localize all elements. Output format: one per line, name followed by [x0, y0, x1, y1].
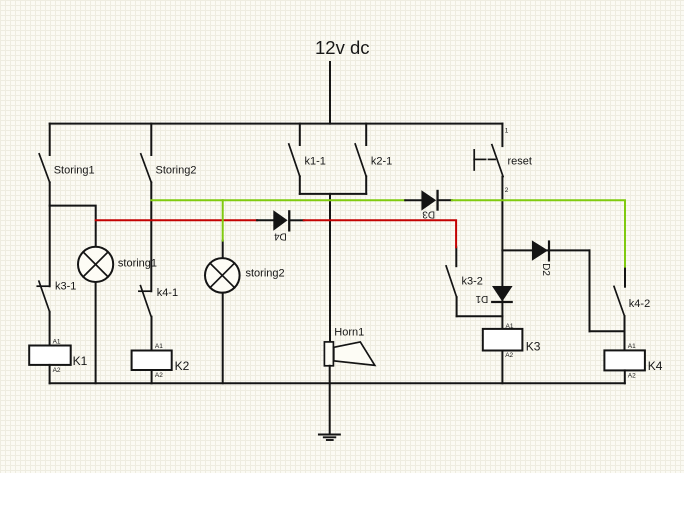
svg-text:D1: D1 — [475, 293, 488, 304]
svg-text:Storing1: Storing1 — [54, 165, 95, 177]
svg-text:A2: A2 — [155, 372, 163, 379]
lamp storing2 — [205, 258, 285, 293]
switch Storing1 — [39, 124, 94, 183]
svg-text:k1-1: k1-1 — [305, 155, 326, 167]
svg-text:A1: A1 — [628, 343, 636, 350]
diode D3 — [405, 190, 452, 220]
wire k4-2 lower to K4 — [624, 316, 626, 350]
relay coil K4 — [604, 343, 662, 380]
relay coil K3 — [483, 323, 541, 359]
switch k3-1 (NC contact) — [37, 280, 76, 311]
buzzer Horn1 — [324, 327, 374, 366]
svg-text:reset: reset — [508, 156, 532, 168]
svg-text:K3: K3 — [526, 340, 541, 354]
wire green net drop to storing2 — [222, 200, 224, 240]
svg-text:2: 2 — [505, 187, 509, 194]
wire D2 branch horizontal — [502, 249, 589, 251]
wire D2 output to k4-2 — [590, 330, 625, 332]
svg-text:k3-1: k3-1 — [55, 280, 76, 292]
wire lamp storing1 to bottom bus — [95, 282, 97, 383]
svg-text:D4: D4 — [274, 230, 287, 241]
wire Storing1 lower vertical — [49, 182, 51, 286]
relay coil K1 — [29, 338, 87, 374]
relay coil K2 — [132, 343, 190, 379]
svg-text:D3: D3 — [422, 209, 435, 220]
wire K3 A2 pin — [501, 351, 503, 384]
svg-text:A2: A2 — [53, 367, 61, 374]
svg-text:A1: A1 — [155, 343, 163, 350]
node 12V supply label — [315, 37, 370, 58]
switch k4-1 (NC contact) — [139, 286, 178, 317]
wire branch to lamp storing1 — [50, 206, 96, 247]
svg-text:K1: K1 — [73, 354, 88, 368]
wire K2 A2 pin — [151, 370, 153, 383]
svg-text:D2: D2 — [540, 263, 551, 276]
switch k4-2 — [614, 267, 650, 317]
svg-text:Horn1: Horn1 — [334, 327, 364, 339]
svg-text:storing2: storing2 — [246, 267, 285, 279]
wire k4-1 to K2 coil — [151, 317, 153, 351]
svg-text:A1: A1 — [53, 338, 61, 345]
wire K1 A2 pin — [49, 365, 51, 383]
wire red net right segment — [304, 220, 456, 247]
svg-text:k4-1: k4-1 — [157, 287, 178, 299]
wire center vertical to horn — [329, 194, 331, 342]
wire green net right segment — [452, 200, 625, 266]
svg-text:12v dc: 12v dc — [315, 37, 370, 58]
lamp storing1 — [78, 247, 157, 282]
diode D4 — [257, 210, 304, 241]
wire D2 output down — [589, 250, 591, 331]
wire bottom bus — [50, 382, 625, 384]
svg-text:k4-2: k4-2 — [629, 298, 650, 310]
svg-text:A1: A1 — [506, 323, 514, 330]
svg-text:Storing2: Storing2 — [156, 165, 197, 177]
svg-text:k3-2: k3-2 — [462, 276, 483, 288]
wire 12v feed vertical — [329, 62, 331, 124]
wire k3-2 to K3 — [457, 315, 503, 317]
wire lamp storing2 top black — [222, 241, 224, 259]
switch k2-1 — [355, 124, 392, 194]
wire green net left segment — [151, 199, 405, 201]
wire k1-1/k2-1 bottom join — [300, 193, 366, 195]
svg-text:K4: K4 — [648, 359, 663, 373]
wire reset to K3 vertical — [501, 177, 503, 329]
wire k3-2 lower — [456, 297, 458, 316]
wire Storing2 lower vertical — [150, 182, 152, 291]
wire k3-1 to K1 coil — [49, 312, 51, 346]
wire top bus horizontal — [50, 123, 503, 125]
svg-text:A2: A2 — [628, 373, 636, 380]
wire horn to ground — [329, 366, 331, 435]
svg-text:k2-1: k2-1 — [371, 155, 392, 167]
svg-text:K2: K2 — [175, 359, 190, 373]
switch k3-2 — [446, 247, 483, 297]
diode D1 — [475, 286, 513, 304]
ground — [319, 435, 340, 441]
wire red net left segment — [96, 219, 257, 221]
wire lamp storing2 to bottom bus — [222, 293, 224, 384]
svg-text:A2: A2 — [505, 352, 513, 359]
switch k1-1 — [289, 124, 326, 194]
wire K4 A2 pin — [624, 370, 626, 383]
diode D2 — [532, 240, 551, 276]
svg-text:1: 1 — [505, 127, 509, 134]
switch Storing2 — [141, 124, 197, 183]
switch reset (pushbutton) — [474, 124, 532, 194]
